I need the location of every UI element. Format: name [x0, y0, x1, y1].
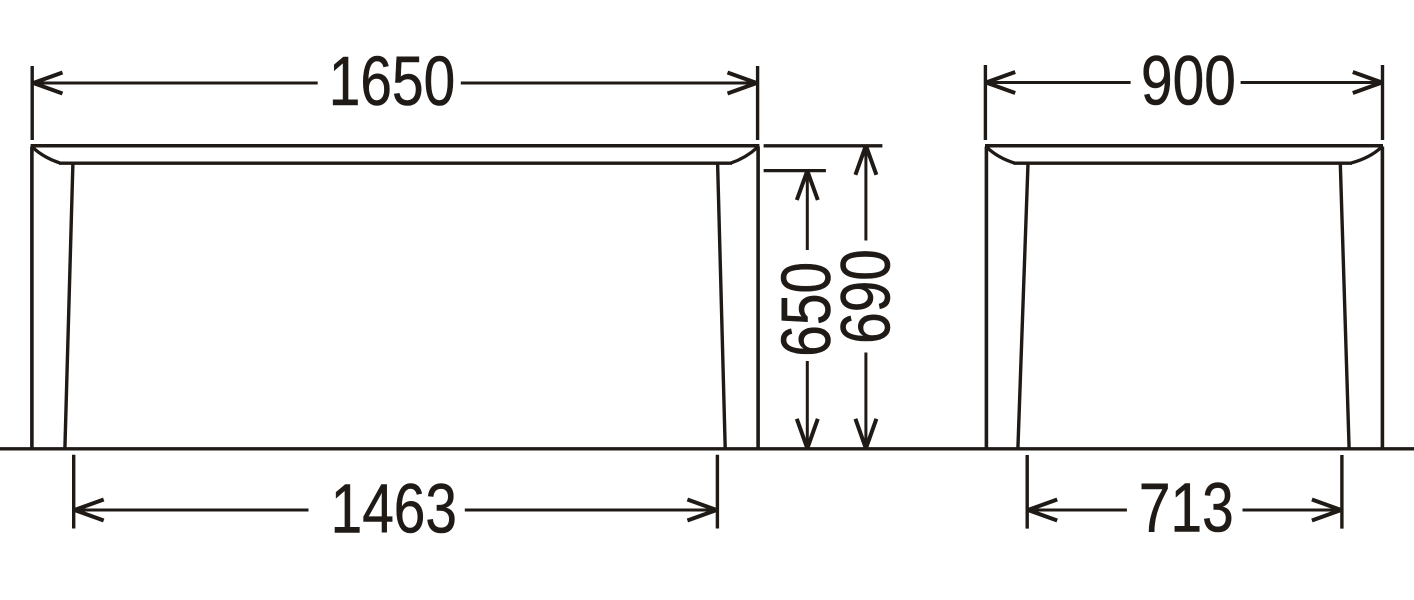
- table side view: tabletop left bevel: [987, 147, 1015, 163]
- dimension 1463: right extension line: [716, 455, 719, 529]
- table side view: left leg inner edge: [1018, 164, 1028, 449]
- dimension 713: right extension line: [1340, 455, 1343, 529]
- dimension 1463: left extension line: [72, 455, 75, 529]
- dimension 1463: left arrowhead: [75, 500, 104, 521]
- dimension 713: line left segment: [1029, 509, 1127, 512]
- dimension 1650: right extension line: [756, 66, 759, 140]
- dimension 900: line right segment: [1241, 81, 1381, 84]
- dimension 690: upper shaft: [864, 147, 867, 241]
- dimension 713: left arrowhead: [1028, 500, 1057, 521]
- dimension 713: right arrowhead: [1312, 500, 1341, 521]
- dimension 690: top arrowhead: [855, 146, 876, 175]
- table front view: tabletop bottom edge: [59, 162, 732, 165]
- svg-text:900: 900: [1141, 43, 1236, 120]
- dimension 690: top tick line: [764, 144, 883, 147]
- table front view: right leg inner edge: [718, 164, 726, 449]
- dimension 1463: line left segment: [76, 509, 309, 512]
- table side view: right leg outer edge: [1381, 147, 1385, 449]
- dimension 650: top tick line: [764, 169, 826, 172]
- table front view: left leg inner edge: [65, 164, 73, 449]
- dimension 650: upper shaft: [806, 172, 809, 250]
- dimension 650: value label: [769, 262, 846, 357]
- dimension 900: left arrowhead: [986, 72, 1015, 93]
- table front view: tabletop top edge: [31, 144, 760, 148]
- table front view: left leg outer edge: [30, 147, 34, 449]
- table side view: right leg inner edge: [1340, 164, 1349, 449]
- dimension 900: left extension line: [984, 65, 987, 140]
- dimension 1650: line left segment: [34, 82, 318, 85]
- svg-text:690: 690: [828, 249, 905, 344]
- dimension 650: bottom arrowhead: [797, 419, 818, 449]
- dimension 1650: right arrowhead: [728, 73, 757, 94]
- dimension 713: value label: [1139, 470, 1234, 547]
- dimension 713: left extension line: [1025, 455, 1028, 529]
- table side view: tabletop right bevel: [1351, 147, 1382, 163]
- dimension 1463: right arrowhead: [687, 500, 716, 521]
- table front view: tabletop right bevel: [731, 147, 758, 163]
- svg-text:713: 713: [1139, 470, 1234, 547]
- table side view: tabletop top edge: [985, 144, 1383, 148]
- dimension 1650: left arrowhead: [33, 73, 62, 94]
- dimension 1650: value label: [329, 44, 455, 121]
- dimension 690: value label: [828, 249, 905, 344]
- table side view: left leg outer edge: [985, 147, 989, 449]
- dimension 1650: left extension line: [31, 66, 34, 140]
- dimension 650: top arrowhead: [797, 171, 818, 200]
- table front view: right leg outer edge: [756, 147, 760, 449]
- table front view: tabletop left bevel: [32, 147, 60, 163]
- dimension 1650: line right segment: [461, 82, 756, 85]
- dimension 690: bottom arrowhead: [855, 419, 876, 449]
- dimension 690: lower shaft: [864, 353, 867, 448]
- dimension 1463: value label: [331, 471, 457, 548]
- dimension 900: right extension line: [1381, 65, 1384, 140]
- floor line: [0, 447, 1414, 450]
- dimension 650: lower shaft: [806, 361, 809, 447]
- dimension 1463: line right segment: [465, 509, 716, 512]
- dimension 900: line left segment: [987, 81, 1130, 84]
- table side view: tabletop bottom edge: [1014, 162, 1353, 165]
- svg-text:1463: 1463: [331, 471, 457, 548]
- svg-text:1650: 1650: [329, 44, 455, 121]
- dimension 713: line right segment: [1243, 509, 1340, 512]
- dimension 900: value label: [1141, 43, 1236, 120]
- dimension 900: right arrowhead: [1353, 72, 1382, 93]
